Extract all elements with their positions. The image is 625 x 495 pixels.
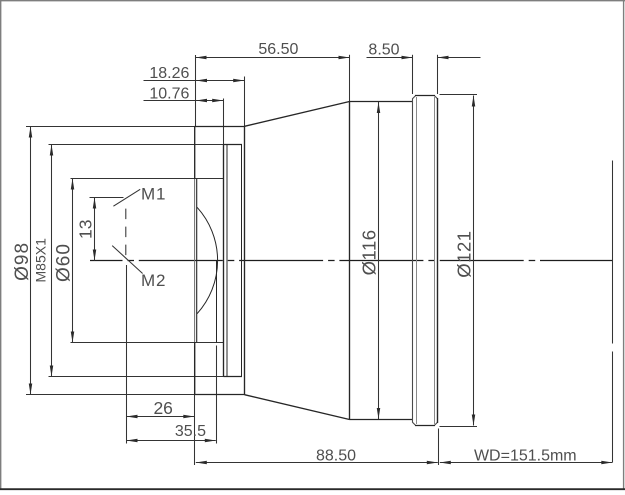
- arrow M85X1 up: [50, 145, 54, 156]
- arrow 18.26 left: [196, 79, 207, 83]
- svg-text:26: 26: [153, 398, 172, 418]
- arrow 35.5 left: [127, 439, 138, 443]
- dim 8.50 left tail: [367, 57, 413, 59]
- flange ring top edge: [415, 95, 435, 97]
- cylinder Ø116 bottom edge: [350, 419, 413, 421]
- arrow 18.26 right: [233, 79, 244, 83]
- dim Ø116 line: [378, 102, 380, 419]
- ext: Ø121 top extension: [440, 94, 478, 96]
- ring inner right line: [434, 97, 436, 424]
- ext: image plane upper: [612, 161, 614, 344]
- barrel top edge: [195, 126, 245, 128]
- flange ring right edge: [437, 98, 439, 423]
- svg-text:13: 13: [76, 219, 96, 238]
- junction cone-cylinder: [349, 102, 351, 420]
- ext: cone-cylinder junction up: [349, 55, 351, 102]
- ext: 35.5 right vertical: [216, 346, 218, 444]
- arrow Ø116 up: [377, 102, 381, 113]
- ext: M1M2 plane vertical solid: [126, 265, 128, 444]
- svg-text:35.5: 35.5: [175, 423, 206, 440]
- arrow 26 left: [127, 415, 138, 419]
- dashed thread line M1/M2: [125, 209, 127, 261]
- arrow WD right: [601, 461, 612, 465]
- svg-text:18.26: 18.26: [149, 65, 189, 82]
- sleeve inner line: [226, 145, 228, 377]
- cylinder Ø116 top edge: [350, 101, 413, 103]
- leader M1: [113, 189, 140, 206]
- arrow Ø98 up: [29, 127, 33, 138]
- front face lower: [194, 342, 196, 395]
- M85 sleeve top edge: [224, 144, 243, 146]
- ext: ring left vertical: [412, 55, 414, 94]
- flange ring Ø121 outline: [413, 96, 438, 426]
- arrow 56.50 left: [196, 56, 207, 60]
- svg-text:56.50: 56.50: [258, 41, 298, 58]
- svg-text:M85X1: M85X1: [33, 238, 49, 283]
- dim 18.26 line: [144, 80, 245, 82]
- arrow 13 down: [93, 250, 97, 261]
- arrow Ø60 up: [71, 179, 75, 190]
- dim M85X1 line: [51, 145, 53, 377]
- cone bottom edge: [245, 395, 350, 420]
- ext: Ø60 bottom edge extension: [71, 342, 224, 344]
- arrow Ø60 down: [71, 332, 75, 343]
- dim Ø121 line: [473, 96, 475, 426]
- ext: Ø60 top edge extension: [71, 178, 224, 180]
- arrow 8.50 right points left: [438, 56, 449, 60]
- sheet border right: [623, 0, 625, 489]
- centerline: [90, 260, 613, 262]
- bore edge line: [216, 261, 218, 343]
- ext: 13 top reference line: [90, 197, 124, 199]
- svg-text:10.76: 10.76: [149, 86, 189, 103]
- sleeve left line: [223, 145, 225, 377]
- arrow Ø116 down: [377, 408, 381, 419]
- ext: front face vertical up: [195, 55, 197, 127]
- svg-text:Ø98: Ø98: [12, 242, 33, 281]
- svg-text:88.50: 88.50: [316, 448, 356, 465]
- svg-text:Ø121: Ø121: [454, 230, 475, 277]
- junction barrel-cone: [244, 127, 246, 395]
- front face inner mid: [196, 179, 198, 342]
- flange ring bottom edge: [415, 425, 435, 427]
- front face outer mid: [194, 179, 196, 342]
- arrow 26 right: [183, 415, 194, 419]
- dim 26 line: [127, 416, 195, 418]
- dim 35.5 line: [127, 440, 216, 442]
- sheet border bottom: [0, 488, 625, 490]
- arrow 56.50 right: [339, 56, 350, 60]
- dim WD line: [440, 462, 613, 464]
- arrow Ø121 down: [472, 415, 476, 426]
- arrow 88.50 right: [427, 461, 438, 465]
- svg-text:M1: M1: [141, 185, 166, 204]
- ext: image plane lower: [612, 352, 614, 463]
- svg-text:WD=151.5mm: WD=151.5mm: [474, 447, 577, 464]
- front face upper: [194, 127, 196, 180]
- arrow WD left: [440, 461, 451, 465]
- barrel bottom edge: [195, 394, 245, 396]
- svg-text:M2: M2: [141, 271, 166, 290]
- dim 10.76 line: [144, 100, 224, 102]
- arrow 8.50 left points right: [402, 56, 413, 60]
- dim 13 line: [94, 198, 96, 261]
- dim Ø60 line: [72, 179, 74, 343]
- sheet border top: [0, 0, 625, 2]
- ring inner left line: [416, 97, 418, 424]
- ext: 10.76 vertical: [223, 99, 225, 145]
- cone top edge: [245, 102, 350, 127]
- leader M2: [112, 246, 142, 274]
- arrow Ø98 down: [29, 384, 33, 395]
- retainer bar left line: [241, 145, 243, 377]
- ext: Ø98 top edge extension: [26, 126, 196, 128]
- dim 8.50 right tail: [438, 57, 481, 59]
- ext: M85 bottom edge extension: [49, 376, 224, 378]
- ext: M85 top edge extension: [49, 144, 224, 146]
- svg-text:Ø60: Ø60: [54, 243, 75, 282]
- arrow 35.5 right: [205, 439, 216, 443]
- arrow 10.76 left: [196, 99, 207, 103]
- arrow 88.50 left: [196, 461, 207, 465]
- dim Ø98 line: [30, 127, 32, 395]
- ext: ring right vertical: [437, 55, 439, 94]
- dim 56.50 line: [196, 57, 350, 59]
- ext: rear flange vertical down: [438, 429, 440, 466]
- arrow 10.76 right: [212, 99, 223, 103]
- M85 sleeve bottom edge: [224, 376, 243, 378]
- ext: 18.26 vertical: [244, 77, 246, 127]
- ext: Ø98 bottom edge extension: [26, 394, 196, 396]
- sheet border left: [0, 0, 2, 489]
- ext: front face vertical down: [194, 346, 196, 465]
- svg-text:Ø116: Ø116: [359, 229, 380, 275]
- lens surface arc: [197, 207, 217, 313]
- ext: Ø121 bottom extension: [440, 426, 478, 428]
- svg-text:8.50: 8.50: [368, 41, 399, 58]
- arrow Ø121 up: [472, 96, 476, 107]
- dim 88.50 line: [196, 462, 438, 464]
- arrow 13 up: [93, 198, 97, 209]
- arrow M85X1 down: [50, 366, 54, 377]
